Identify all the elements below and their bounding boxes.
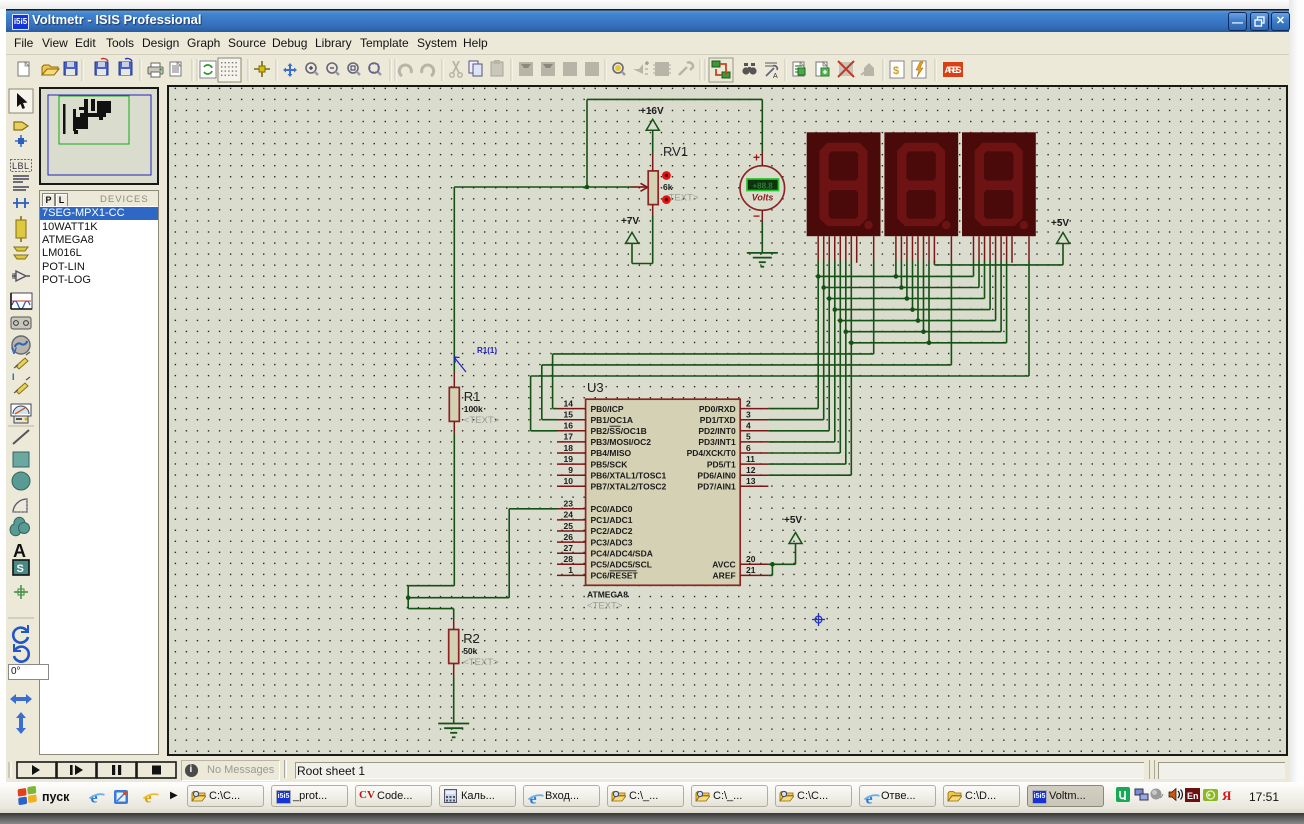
svg-text:15: 15: [564, 410, 574, 420]
svg-text:PC6/RESET: PC6/RESET: [591, 571, 639, 581]
svg-text:PD1/TXD: PD1/TXD: [700, 415, 736, 425]
svg-text:En: En: [1187, 791, 1199, 801]
svg-text:PD2/INT0: PD2/INT0: [698, 426, 736, 436]
svg-text:<TEXT>: <TEXT>: [464, 415, 500, 426]
svg-text:PB6/XTAL1/TOSC1: PB6/XTAL1/TOSC1: [591, 470, 667, 480]
svg-text:PB5/SCK: PB5/SCK: [591, 459, 629, 469]
svg-text:<TEXT>: <TEXT>: [587, 601, 623, 612]
svg-text:U3: U3: [587, 380, 604, 395]
svg-text:AREF: AREF: [713, 571, 736, 581]
svg-text:R2: R2: [463, 631, 480, 646]
svg-text:PC2/ADC2: PC2/ADC2: [591, 526, 633, 536]
svg-text:PD6/AIN0: PD6/AIN0: [697, 470, 736, 480]
svg-text:ATMEGA8: ATMEGA8: [587, 590, 628, 600]
svg-text:PD5/T1: PD5/T1: [707, 459, 736, 469]
svg-text:25: 25: [564, 521, 574, 531]
svg-text:5: 5: [746, 432, 751, 442]
svg-text:28: 28: [564, 554, 574, 564]
svg-text:4: 4: [746, 421, 751, 431]
svg-text:14: 14: [564, 398, 574, 408]
svg-text:17: 17: [564, 432, 574, 442]
svg-text:LBL: LBL: [12, 161, 30, 171]
svg-text:−: −: [753, 209, 760, 223]
svg-text:+5V: +5V: [1051, 218, 1069, 229]
svg-text:26: 26: [564, 532, 574, 542]
svg-text:19: 19: [564, 454, 574, 464]
svg-text:9: 9: [568, 465, 573, 475]
svg-text:1: 1: [568, 565, 573, 575]
svg-text:PC0/ADC0: PC0/ADC0: [591, 504, 633, 514]
svg-text:100k: 100k: [464, 404, 483, 414]
svg-text:PC3/ADC3: PC3/ADC3: [591, 537, 633, 547]
svg-text:6k: 6k: [663, 182, 673, 192]
svg-text:50k: 50k: [463, 646, 477, 656]
svg-text:13: 13: [746, 476, 756, 486]
svg-text:PD7/AIN1: PD7/AIN1: [697, 482, 736, 492]
svg-text:16: 16: [564, 421, 574, 431]
svg-text:PB7/XTAL2/TOSC2: PB7/XTAL2/TOSC2: [591, 482, 667, 492]
svg-text:23: 23: [564, 499, 574, 509]
svg-text:21: 21: [746, 565, 756, 575]
svg-text:<TEXT>: <TEXT>: [463, 657, 499, 668]
svg-text:Я: Я: [1222, 788, 1232, 803]
svg-text:18: 18: [564, 443, 574, 453]
svg-text:V: V: [11, 346, 17, 356]
svg-text:R1: R1: [464, 389, 481, 404]
svg-text:RV1: RV1: [663, 144, 688, 159]
svg-text:A: A: [773, 73, 778, 80]
svg-text:27: 27: [564, 543, 574, 553]
svg-text:PB1/OC1A: PB1/OC1A: [591, 415, 634, 425]
svg-text:+: +: [753, 151, 760, 165]
svg-text:+16V: +16V: [640, 106, 664, 117]
svg-text:10: 10: [564, 476, 574, 486]
svg-text:I: I: [12, 372, 15, 382]
svg-text:PB2/SS/OC1B: PB2/SS/OC1B: [591, 426, 647, 436]
svg-text:+88.8: +88.8: [752, 181, 773, 190]
svg-text:A: A: [13, 541, 26, 561]
svg-text:PD4/XCK/T0: PD4/XCK/T0: [687, 448, 736, 458]
svg-text:24: 24: [564, 510, 574, 520]
svg-text:11: 11: [746, 454, 755, 464]
svg-text:3: 3: [746, 410, 751, 420]
svg-text:PB0/ICP: PB0/ICP: [591, 404, 624, 414]
svg-text:$: $: [893, 65, 899, 77]
svg-text:ARES: ARES: [945, 65, 962, 75]
svg-text:PD3/INT1: PD3/INT1: [698, 437, 736, 447]
svg-text:PC1/ADC1: PC1/ADC1: [591, 515, 633, 525]
svg-text:2: 2: [746, 398, 751, 408]
svg-text:PB4/MISO: PB4/MISO: [591, 448, 632, 458]
svg-text:+7V: +7V: [621, 216, 639, 227]
svg-text:S: S: [17, 563, 24, 575]
svg-text:PC4/ADC4/SDA: PC4/ADC4/SDA: [591, 548, 653, 558]
svg-text:Volts: Volts: [752, 192, 774, 202]
svg-text:6: 6: [746, 443, 751, 453]
svg-text:AVCC: AVCC: [712, 560, 735, 570]
svg-text:12: 12: [746, 465, 756, 475]
svg-text:20: 20: [746, 554, 756, 564]
svg-text:PD0/RXD: PD0/RXD: [699, 404, 736, 414]
svg-text:+5V: +5V: [784, 515, 802, 526]
svg-text:PB3/MOSI/OC2: PB3/MOSI/OC2: [591, 437, 652, 447]
svg-text:R1(1): R1(1): [477, 346, 497, 355]
svg-text:PC5/ADC5/SCL: PC5/ADC5/SCL: [591, 560, 652, 570]
